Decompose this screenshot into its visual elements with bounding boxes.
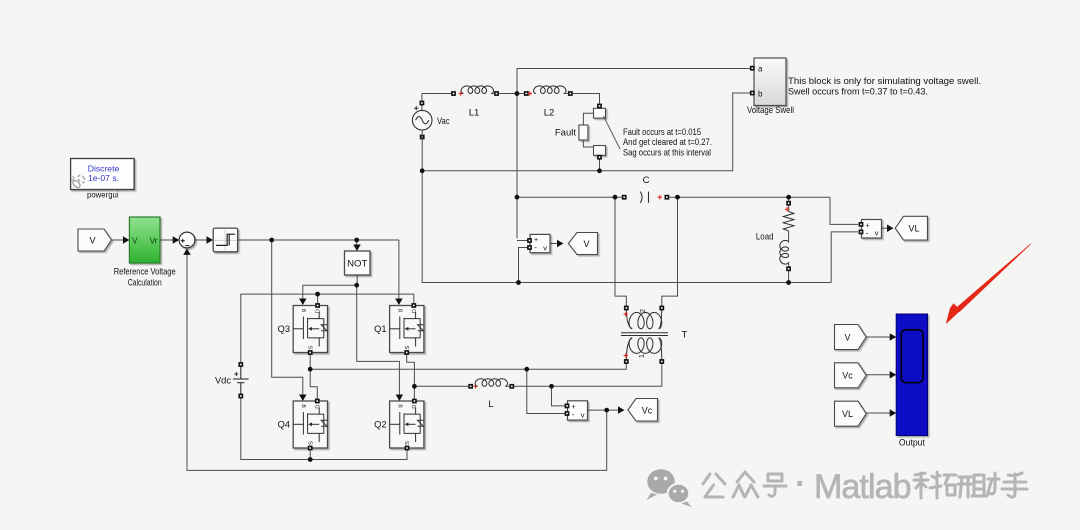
leader line fault annotation <box>604 116 621 149</box>
svg-text:Fault: Fault <box>555 127 576 138</box>
node Q3 drain tap <box>315 292 320 297</box>
node bridge right mid <box>412 384 417 389</box>
From tag V (scope) <box>835 325 867 350</box>
arrowhead into Sum bottom <box>183 248 191 255</box>
svg-text:powergui: powergui <box>87 190 119 200</box>
arrowhead into Goto VL <box>887 224 894 232</box>
svg-text:1e-07 s.: 1e-07 s. <box>88 173 119 183</box>
battery Vdc <box>233 365 249 397</box>
wire return rail to V measure - <box>519 248 529 283</box>
node winding2 left tap <box>613 195 618 200</box>
svg-text:a: a <box>758 65 763 74</box>
scope Output <box>896 314 927 436</box>
arrowhead into NOT <box>353 245 361 252</box>
svg-text:Output: Output <box>899 438 925 448</box>
svg-text:V: V <box>132 236 138 245</box>
wire L2 to fault breaker <box>573 94 600 104</box>
node cap rail start <box>515 195 520 200</box>
inductor L2 <box>534 86 566 94</box>
port Q1 drain <box>411 303 416 308</box>
wire mid rail to Vc measure - <box>527 369 566 413</box>
wire return rail to VL measure - <box>831 232 858 283</box>
port Q4 drain <box>315 399 320 404</box>
svg-text:Reference Voltage: Reference Voltage <box>114 267 176 277</box>
port Q3 source <box>308 350 313 355</box>
wire VL measure to Goto VL <box>882 227 890 229</box>
wire Q3 source to Q4 drain <box>310 355 317 399</box>
svg-text:g: g <box>397 404 403 407</box>
wire node to transformer winding1 right <box>552 364 662 386</box>
wire Relay output to Q1 gate (horizontal) <box>238 239 399 241</box>
voltage measurement Vc <box>568 401 588 420</box>
arrowhead into Q1 gate <box>395 299 403 306</box>
svg-text:S: S <box>405 441 411 445</box>
wire fault breaker bottom <box>599 160 601 171</box>
transformer T winding 1 entry <box>626 338 632 364</box>
svg-text:VL: VL <box>842 409 853 419</box>
arrowhead into scope Vc <box>890 371 897 379</box>
transistor Q3 <box>293 306 327 353</box>
node Vac return <box>420 168 425 173</box>
wire bridge left mid-node to transformer winding1 left <box>310 364 626 369</box>
port L2 left <box>524 91 529 96</box>
node Q4 source rail <box>308 457 313 462</box>
resistor of Load <box>783 212 794 231</box>
polarity mark L1 <box>459 91 463 95</box>
From tag V <box>78 229 112 251</box>
subsystem Voltage Swell <box>754 58 786 106</box>
node NOT tap <box>354 238 359 243</box>
port Q4 source <box>308 446 313 451</box>
svg-text:Q3: Q3 <box>278 324 290 334</box>
watermark glyph 手 <box>1002 473 1027 497</box>
svg-text:g: g <box>301 404 307 407</box>
svg-text:g: g <box>301 309 307 312</box>
svg-text:Vr: Vr <box>150 236 158 245</box>
transistor Q4 <box>293 401 327 448</box>
node Vc feedback tap <box>604 408 609 413</box>
port V + <box>527 238 532 243</box>
port swell b <box>750 91 755 96</box>
wire Q1 source to Q2 drain <box>407 355 415 399</box>
port Vc + <box>565 404 570 409</box>
wire Vc feedback to Sum <box>187 254 607 471</box>
Goto tag V <box>568 233 597 255</box>
arrowhead into Goto Vc <box>618 406 625 414</box>
svg-text:Q1: Q1 <box>374 324 386 334</box>
svg-text:T: T <box>682 330 688 341</box>
svg-text:Voltage Swell: Voltage Swell <box>747 105 794 115</box>
port L2 right <box>568 91 573 96</box>
voltage measurement V <box>530 234 550 252</box>
arrowhead into Relay <box>207 236 214 244</box>
svg-text:Swell occurs from t=0.37 to t=: Swell occurs from t=0.37 to t=0.43. <box>788 86 928 97</box>
port L1 left <box>451 91 456 96</box>
node fault return <box>597 168 602 173</box>
NOT logic block <box>345 251 371 275</box>
polarity mark C <box>658 195 662 199</box>
wire breaker to fault resistor <box>583 113 593 125</box>
breaker bottom (fault) <box>594 146 606 156</box>
watermark glyph 众 <box>733 472 758 497</box>
wire From VL to scope <box>866 412 890 414</box>
svg-text:Matlab: Matlab <box>814 468 911 506</box>
svg-text:v: v <box>875 229 879 238</box>
node load bottom <box>786 280 791 285</box>
wire load internal bottom <box>788 262 790 269</box>
wire rail to Q3 drain <box>317 294 319 303</box>
arrowhead into Q4 gate <box>299 395 307 402</box>
svg-text:-: - <box>534 243 537 252</box>
wire L to node <box>514 385 551 387</box>
svg-text:Load: Load <box>756 231 774 242</box>
wire Reference Vr to Sum <box>160 239 173 241</box>
wire rail to Load top <box>788 197 790 201</box>
svg-text:Vdc: Vdc <box>215 375 231 385</box>
watermark glyph 助 <box>972 473 999 496</box>
svg-text:Vc: Vc <box>842 371 853 381</box>
annotation red arrow <box>946 244 1031 325</box>
transformer T core <box>621 333 668 336</box>
svg-text:Q4: Q4 <box>278 420 290 430</box>
watermark glyph 公 <box>703 474 725 497</box>
AC source Vac <box>412 110 432 130</box>
wire capacitor C to load rail <box>669 196 830 198</box>
svg-text:v: v <box>543 243 547 252</box>
port L left <box>468 384 473 389</box>
svg-text:L2: L2 <box>544 108 555 119</box>
wire node to Vc measure + <box>552 386 566 406</box>
arrowhead into Q2 gate <box>396 395 404 402</box>
svg-text:VL: VL <box>908 224 919 234</box>
wire L2 coil to port <box>564 93 568 95</box>
wire Voltage Swell b to return rail <box>422 93 750 171</box>
voltage measurement VL <box>862 220 882 239</box>
node Vc- tap <box>524 367 529 372</box>
svg-text:S: S <box>309 345 315 349</box>
wire fault resistor to breaker bottom <box>583 140 593 147</box>
svg-text:V: V <box>844 332 850 342</box>
port Load bottom <box>786 266 791 271</box>
breaker top (fault) <box>594 108 606 118</box>
node V- tap <box>516 280 521 285</box>
node bridge left mid <box>308 367 313 372</box>
watermark glyph 科 <box>914 472 941 498</box>
wire From V to scope <box>866 336 890 338</box>
wire NOT output <box>356 275 358 285</box>
watermark glyph 号 <box>764 474 786 496</box>
svg-text:L1: L1 <box>469 108 480 119</box>
port Q3 drain <box>315 303 320 308</box>
arrowhead into Q3 gate <box>299 299 307 306</box>
From tag Vc (scope) <box>835 363 867 388</box>
arrowhead into Goto V <box>557 240 564 248</box>
svg-text:Vc: Vc <box>642 406 653 416</box>
wire L coil to port <box>505 385 509 387</box>
wire relay to Q1 gate vertical <box>398 240 400 300</box>
wire From Vc to scope <box>866 374 890 376</box>
inductor L1 <box>461 86 493 94</box>
port Q2 source <box>405 446 410 451</box>
node after L <box>549 384 554 389</box>
port Vdc - <box>238 394 243 399</box>
node NOT output <box>354 283 359 288</box>
svg-text:This block is only for simulat: This block is only for simulating voltag… <box>788 75 981 86</box>
wire rail to VL measure + <box>830 197 858 224</box>
arrowhead into Reference block <box>123 236 129 244</box>
wire V measure to Goto V <box>550 243 557 245</box>
port breaker bottom <box>597 155 602 160</box>
wire relay branch to Q4 gate <box>272 240 303 396</box>
inductor of Load coil <box>780 240 789 264</box>
wire NOT to Q3 gate <box>303 285 357 300</box>
svg-text:b: b <box>758 89 763 98</box>
wire Vac top stub <box>421 94 423 111</box>
svg-text:Calculation: Calculation <box>128 277 162 287</box>
svg-text:Fault occurs at t=0.015: Fault occurs at t=0.015 <box>623 126 701 137</box>
svg-text:V: V <box>89 236 95 246</box>
transformer T winding 2 entry <box>626 306 632 329</box>
node winding2 right tap <box>675 195 680 200</box>
svg-text:Q2: Q2 <box>374 420 386 430</box>
watermark wechat icon <box>647 469 692 507</box>
port swell a <box>750 66 755 71</box>
wire Vac bottom return rail <box>422 139 831 282</box>
port Vdc + <box>238 362 243 367</box>
polarity mark L <box>473 384 477 388</box>
wire Vdc+ rail to Q1 drain <box>241 294 414 364</box>
wire Vdc- rail to Q2 source <box>241 396 407 460</box>
powergui block <box>71 159 135 190</box>
port T winding2 right <box>659 306 664 311</box>
wire cap rail to winding2 right <box>662 197 678 305</box>
port Vc - <box>565 411 570 416</box>
wire Sum to Relay <box>195 239 207 241</box>
port C right <box>665 195 670 200</box>
From tag VL (scope) <box>835 401 867 426</box>
port Load top <box>786 201 791 206</box>
wire L1 coil to port <box>491 93 494 95</box>
capacitor C <box>640 192 648 203</box>
transistor Q2 <box>390 401 424 448</box>
port breaker top <box>597 104 602 109</box>
sum block <box>179 232 195 248</box>
polarity mark Load <box>785 207 789 211</box>
wire node to Voltage Swell a <box>517 68 750 70</box>
wire Load bottom to return rail <box>788 271 790 283</box>
wire Vac to L1 <box>422 93 451 95</box>
Reference Voltage Calculation block <box>129 217 160 263</box>
svg-text:-: - <box>572 410 575 419</box>
port Q2 drain <box>412 399 417 404</box>
svg-text:Vac: Vac <box>437 116 450 127</box>
wire load internal mid <box>788 231 790 243</box>
polarity mark T2 <box>624 312 628 316</box>
svg-text:S: S <box>309 441 315 445</box>
svg-text:NOT: NOT <box>347 259 367 270</box>
port T winding1 right <box>659 359 664 364</box>
svg-text:2: 2 <box>638 309 647 313</box>
port L right <box>509 384 514 389</box>
port Vac - <box>420 135 425 140</box>
transformer T winding 2 coil <box>629 312 662 328</box>
port Q1 source <box>404 350 409 355</box>
port T winding1 left <box>624 359 629 364</box>
port C left <box>622 195 627 200</box>
wire Vac bottom stub <box>421 130 423 139</box>
svg-text:1: 1 <box>637 354 646 358</box>
polarity mark L2 <box>528 91 532 95</box>
transistor Q1 <box>390 306 424 353</box>
wire Vc measure to Goto Vc <box>588 409 621 411</box>
svg-text:g: g <box>397 309 403 312</box>
port Vac + <box>420 101 425 106</box>
wire Q4 source to rail <box>309 450 311 460</box>
transformer T winding 2 exit <box>659 306 662 329</box>
port L1 right <box>494 91 499 96</box>
port V - <box>527 245 532 250</box>
svg-text:Sag occurs at this interval: Sag occurs at this interval <box>623 146 711 157</box>
port VL - <box>859 230 864 235</box>
wire node to inductor L <box>414 385 468 387</box>
watermark glyph 研 <box>944 475 972 497</box>
svg-text:S: S <box>405 345 411 349</box>
wire From V to Reference block <box>112 239 124 241</box>
relay block <box>213 228 237 252</box>
wire to NOT input <box>356 240 358 246</box>
svg-text:·: · <box>795 465 806 503</box>
wire L1 to L2 <box>499 93 524 95</box>
svg-text:-: - <box>866 228 869 237</box>
polarity mark T1 <box>624 353 628 357</box>
wire node to capacitor C <box>517 196 622 198</box>
node load top <box>786 195 791 200</box>
port VL + <box>859 222 864 227</box>
wire load internal top <box>788 205 790 212</box>
node PCC after L1 <box>515 91 520 96</box>
transformer T winding 1 exit <box>659 338 662 364</box>
svg-text:v: v <box>581 410 585 419</box>
svg-text:L: L <box>488 399 493 409</box>
wire cap rail to winding2 left <box>615 197 626 305</box>
svg-text:C: C <box>643 175 650 186</box>
wire sense line down to V measure + <box>516 94 518 239</box>
node relay-Q4 branch <box>269 238 274 243</box>
wire swell-a vertical <box>516 69 518 94</box>
svg-text:V: V <box>583 239 589 249</box>
Goto tag Vc <box>628 399 658 422</box>
arrowhead into Sum <box>173 236 180 244</box>
arrowhead into scope V <box>890 333 897 341</box>
Goto tag VL <box>895 216 927 240</box>
port T winding2 left <box>624 306 629 311</box>
inductor L <box>475 379 507 387</box>
arrowhead into scope VL <box>890 409 897 417</box>
svg-text:Discrete: Discrete <box>88 164 120 174</box>
transformer T winding 1 coil <box>629 338 662 354</box>
wire NOT to Q2 gate <box>357 285 400 396</box>
resistor Fault <box>579 125 588 140</box>
wire into V measure + <box>517 240 528 242</box>
